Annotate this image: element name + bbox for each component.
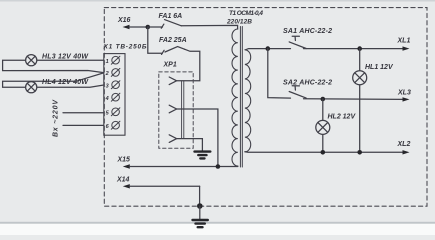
lamp HL4 [26,82,37,93]
mains input wire pin5 [63,112,104,114]
X1 pin 5 [106,108,120,117]
SA1 label [283,28,332,35]
svg-text:2: 2 [105,71,109,77]
svg-text:XP1: XP1 [163,62,177,69]
X1 pin 1 [106,56,120,65]
terminal XL1 arrow [403,46,410,50]
HL1 label [365,64,394,71]
lamp HL2 leads [322,99,324,152]
lamp HL1 [353,71,367,85]
svg-text:X1 ТВ-250Б: X1 ТВ-250Б [103,44,147,51]
XL3 label [397,89,411,96]
svg-text:220/12В: 220/12В [226,19,252,26]
chassis ground symbol [193,220,208,227]
svg-text:XL1: XL1 [397,38,411,45]
ground under XP1 [195,152,211,159]
lamp HL4 loop wire [3,73,104,87]
HL2 label [328,114,357,121]
XP1 pin 2 contact [169,105,176,113]
connector XP1 dashed box [159,72,193,148]
X15 label [117,157,131,164]
svg-text:XL2: XL2 [397,141,411,148]
XP1 pin 3 contact [169,135,176,143]
svg-text:HL3 12V 40W: HL3 12V 40W [42,54,89,61]
fuse-breaker FA1 [148,20,182,29]
svg-text:Т1 ОСМ1-0,4: Т1 ОСМ1-0,4 [229,10,263,17]
svg-text:X15: X15 [117,157,131,164]
fuse-breaker FA2 [162,47,185,55]
FA1 label [159,13,183,20]
wire secondary top to SA row [246,49,291,50]
svg-text:1: 1 [106,59,109,65]
wire to ground [199,206,201,219]
enclosure dashed border [104,8,427,207]
svg-text:SA1 АНС-22-2: SA1 АНС-22-2 [283,28,332,35]
terminal X14 arrow [123,184,200,188]
terminal XL2 arrow [403,150,410,154]
node junction HL1 bottom [357,150,362,155]
wire FA1 to T1 primary [181,25,237,29]
X1 pin 3 [106,81,120,90]
svg-text:3: 3 [106,83,109,89]
node junction HL1 top [357,46,362,51]
switch SA1 [289,36,306,48]
svg-text:XL3: XL3 [397,89,411,96]
X1 pin 4 [105,93,120,102]
XP1 contact bus lines [182,81,184,139]
transformer T1 primary winding [232,29,238,166]
FA2 label [159,37,187,44]
lamp HL1 leads [359,49,361,153]
terminal XL3 arrow [403,97,410,101]
XP1 pin 1 contact [169,77,176,85]
node junction at FA input [146,25,151,30]
HL3 value label [42,54,89,61]
X16 label [117,17,131,24]
lamp HL3 [26,55,37,66]
terminal X16 arrow [123,25,148,29]
node junction HL2 bottom [321,150,326,155]
mains input wire pin6 [63,124,104,126]
X1 label [103,44,147,51]
node junction HL2 top [321,97,326,102]
svg-text:FA2 25A: FA2 25A [159,37,187,44]
transformer T1 core [240,27,242,168]
svg-text:4: 4 [105,96,109,102]
svg-text:SA2 АНС-22-2: SA2 АНС-22-2 [283,79,332,86]
svg-text:HL1 12V: HL1 12V [365,64,394,71]
SA2 label [283,79,332,86]
svg-text:HL2 12V: HL2 12V [328,114,357,121]
wire down to SA2 [268,49,291,99]
wire XP1 pin3 to ground [177,139,203,151]
HL4 value label [42,79,89,86]
svg-text:FA1 6A: FA1 6A [159,13,183,20]
wire FA2 to XP1 pin1 [177,49,200,81]
transformer T1 secondary winding [245,50,251,152]
node junction secondary top [266,46,271,51]
switch SA2 [289,86,306,98]
node junction on border [197,203,203,209]
connector X1 block outline [104,54,125,136]
mains label ~220V [53,99,60,137]
lamp HL3 loop wire top [3,60,104,72]
X14 label [116,176,130,183]
lamp HL2 [316,120,330,134]
svg-text:HL4 12V 40W: HL4 12V 40W [42,79,89,86]
svg-text:Вх ~220V: Вх ~220V [53,99,60,137]
wire secondary bottom to XL2 [245,151,404,154]
XP1 label [163,62,177,69]
node junction primary bottom [216,164,221,169]
wire SA1 to XL1 [304,48,405,50]
svg-text:X14: X14 [116,176,130,183]
XL2 label [397,141,411,148]
T1 label [226,10,263,26]
wire junction down to FA2 [148,27,163,53]
terminal X15 arrow [123,164,238,168]
X1 pin 2 [105,68,120,77]
wire X14 to chassis ground [199,186,201,206]
svg-text:X16: X16 [117,17,131,24]
X1 pin 6 [106,121,120,130]
wire SA2 to XL3 [304,98,405,101]
wire XP1 pin2 to primary bottom node [177,109,218,166]
XL1 label [397,38,411,45]
